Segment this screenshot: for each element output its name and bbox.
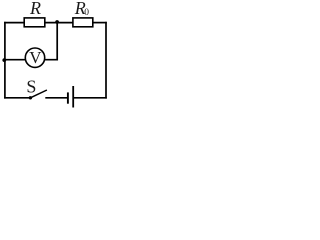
wire top-left segment [4,22,26,24]
voltmeter U1 [25,48,44,67]
node A (junction of R, R0 and voltmeter) [55,20,59,24]
battery BT1 short plate (negative) [67,92,69,103]
battery BT1 long plate (positive) [72,86,74,108]
wire top-right segment [92,22,107,24]
wire voltmeter left stub [5,59,27,61]
wire bottom-middle segment (switch to battery) [45,97,67,99]
svg-text:S: S [26,77,36,97]
wire top-middle segment (between R and R0) [44,22,75,24]
wire right rail [105,22,107,99]
resistor R [24,18,45,27]
wire bottom-left segment (to switch) [4,97,30,99]
label R [29,0,41,18]
label V (voltmeter) [29,48,42,67]
svg-text:V: V [29,48,42,67]
svg-text:0: 0 [84,8,89,18]
wire voltmeter right branch (up to node) [44,23,57,60]
label S [26,77,36,97]
resistor R0 [73,18,93,27]
label R0 [74,0,90,18]
wire bottom-right segment (battery to right rail) [73,97,107,99]
switch S1 pivot [29,96,32,99]
node B (junction on left rail) [2,58,6,62]
svg-text:R: R [29,0,41,18]
wire left rail [4,22,6,99]
switch S1 blade [30,90,47,98]
